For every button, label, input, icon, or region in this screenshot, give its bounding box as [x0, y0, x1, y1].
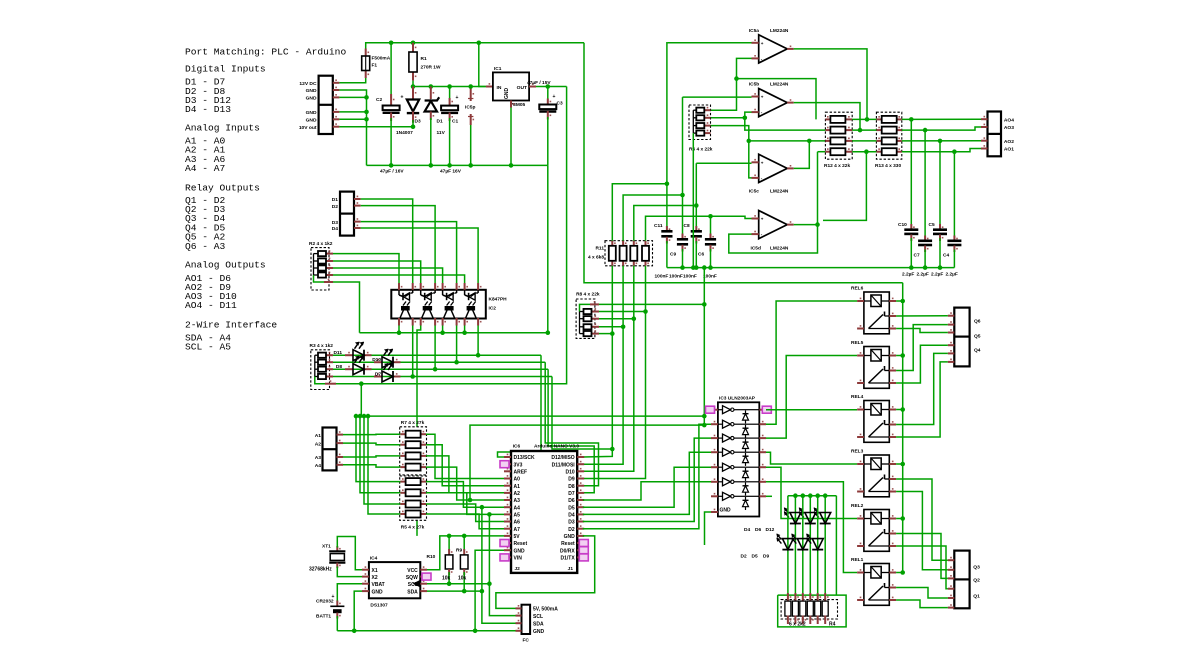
wire IC5b +in — [683, 96, 752, 98]
svg-text:C3: C3 — [557, 101, 563, 107]
wire VBAT to battery — [337, 584, 362, 603]
wire LED common top — [788, 495, 837, 497]
wire D3 to ULN in3 — [583, 438, 711, 521]
wire IC5c output — [794, 141, 810, 169]
svg-text:D4: D4 — [332, 226, 339, 232]
wire opto emitter rail — [360, 332, 548, 334]
resistor network R12 4x22k — [825, 112, 852, 159]
pin highlight Reset left — [500, 540, 509, 547]
wire REL2 contact1 to Q — [896, 534, 948, 579]
wire D8 row to Arduino D7 — [548, 369, 594, 493]
svg-text:R4: R4 — [829, 622, 836, 628]
wire row4 tap down — [823, 152, 866, 221]
wire REL5 contact2 to Q — [896, 345, 948, 383]
wire R8 common vertical — [703, 304, 705, 425]
svg-text:Reset: Reset — [561, 541, 575, 547]
wire 12V top rail — [366, 43, 584, 49]
svg-text:2.2µF: 2.2µF — [931, 272, 943, 278]
wire ULN out3 to REL5 coil — [766, 356, 857, 439]
wire ULN out2 to REL6 coil — [766, 301, 857, 424]
wire D6 to ULN in6 — [583, 482, 711, 500]
wire Arduino GND left down — [475, 550, 504, 631]
capacitor C10 2.2uF — [910, 119, 912, 228]
svg-text:SCL - A5: SCL - A5 — [185, 341, 231, 352]
svg-text:5V, 500mA: 5V, 500mA — [533, 607, 558, 613]
svg-text:78M05: 78M05 — [511, 102, 526, 108]
svg-text:IC2: IC2 — [489, 306, 497, 312]
svg-text:10V out: 10V out — [299, 125, 317, 131]
LED D12 — [824, 496, 826, 600]
svg-text:Q3: Q3 — [973, 565, 980, 571]
wire 5V down to R3 common — [336, 87, 567, 384]
wire X2 to crystal — [337, 567, 362, 577]
wire ULN out5 to REL2 coil — [766, 467, 857, 518]
LED D5 — [802, 496, 804, 600]
svg-text:10k: 10k — [458, 576, 467, 582]
wire IC5d output — [794, 224, 818, 226]
svg-text:D4: D4 — [568, 513, 575, 519]
ULN internal output lines — [746, 409, 760, 411]
svg-text:2-Wire Interface: 2-Wire Interface — [185, 319, 277, 330]
svg-text:2.2µF: 2.2µF — [946, 272, 958, 278]
svg-text:GND: GND — [564, 534, 576, 540]
wire R2 r4 to opto ch4 cathode — [333, 275, 465, 283]
regulator IC1 78M05 — [479, 43, 486, 87]
wire D3 to opto ch3 — [361, 222, 457, 283]
wire DAC line D10 — [583, 266, 634, 472]
wire SCL column to FC — [489, 514, 521, 615]
svg-text:Q6: Q6 — [974, 319, 981, 325]
wire row4 R12-R13 — [852, 151, 876, 153]
wire REL1 contact2 to Q — [896, 600, 948, 608]
wire X1 to crystal — [337, 537, 362, 570]
svg-text:AO3: AO3 — [1004, 125, 1014, 131]
svg-text:J1: J1 — [568, 566, 574, 572]
svg-text:D3: D3 — [332, 220, 339, 226]
ULN diodes — [743, 414, 749, 420]
wire IC5a output — [794, 49, 867, 120]
LED D8 — [333, 368, 548, 370]
svg-text:OUT: OUT — [517, 85, 527, 91]
wire GND rail bottom — [337, 630, 521, 632]
svg-text:A7: A7 — [514, 527, 521, 533]
pin highlight Reset right — [579, 540, 588, 547]
svg-text:+: + — [456, 95, 459, 101]
svg-text:1N4007: 1N4007 — [396, 130, 413, 136]
op-amp IC5c LM224N — [759, 154, 788, 182]
svg-text:3V3: 3V3 — [514, 462, 523, 468]
svg-text:11V: 11V — [437, 130, 446, 136]
LED D6 — [809, 496, 811, 600]
svg-text:D5: D5 — [568, 505, 575, 511]
svg-text:SQW: SQW — [406, 575, 418, 581]
wire R5 r3 to Arduino A6 — [426, 504, 504, 522]
svg-text:AREF: AREF — [514, 470, 528, 476]
svg-text:GND: GND — [372, 589, 384, 595]
wire row4 to AO1 — [902, 149, 981, 152]
svg-text:R8 4 x 22k: R8 4 x 22k — [576, 292, 600, 298]
svg-text:Reset: Reset — [514, 541, 528, 547]
pin highlight D1/TX — [579, 554, 588, 561]
svg-text:Q5: Q5 — [974, 334, 981, 340]
wire R5 r1 to Arduino A4 SDA — [426, 482, 504, 508]
wire filter B up to IC5b — [682, 97, 684, 195]
svg-text:R3 4 x 1k2: R3 4 x 1k2 — [310, 343, 334, 349]
wire IC5c +in — [696, 162, 751, 164]
svg-text:C11: C11 — [654, 223, 663, 229]
svg-text:VBAT: VBAT — [372, 582, 385, 588]
wire R11 r3 top to filter C — [634, 206, 697, 241]
LED D11 — [333, 354, 541, 356]
relay REL1 — [864, 564, 889, 606]
wire IC5d +in — [711, 216, 752, 218]
wire ULN out6 to REL1 coil — [766, 482, 857, 573]
svg-text:Analog Outputs: Analog Outputs — [185, 260, 266, 271]
svg-text:LM224N: LM224N — [770, 28, 789, 34]
svg-text:VCC: VCC — [407, 568, 418, 574]
battery BATT1 CR2032 — [336, 601, 338, 607]
svg-text:A2: A2 — [315, 441, 322, 447]
wire row2 to AO3 — [902, 127, 981, 130]
svg-text:D10: D10 — [566, 470, 575, 476]
capacitor C2 47uF/16V — [390, 43, 392, 98]
wire REL6 contact1 to Q — [896, 315, 948, 317]
svg-text:GND: GND — [533, 629, 545, 635]
resistor network R5 4x27k — [400, 476, 427, 520]
wire opto ch4 out to D11 row — [477, 326, 479, 356]
svg-text:A1: A1 — [514, 484, 521, 490]
wire row1 to AO4 — [902, 118, 981, 120]
svg-text:47µF / 15V: 47µF / 15V — [527, 80, 551, 86]
resistor network R4 6x2k2 — [778, 595, 846, 627]
svg-text:Arduino NANO V3.0: Arduino NANO V3.0 — [534, 444, 579, 450]
svg-text:32768kHz: 32768kHz — [309, 567, 332, 573]
svg-text:2.2µF: 2.2µF — [902, 272, 914, 278]
svg-text:Digital Inputs: Digital Inputs — [185, 63, 266, 74]
connector X1 12V DC input — [319, 76, 333, 134]
wire R11 r1 top to filter A — [612, 184, 667, 241]
svg-text:D12/MISO: D12/MISO — [551, 455, 574, 461]
wire R2 r2 to opto ch2 cathode — [333, 261, 421, 283]
wire mid bus to R5 r2 — [360, 416, 400, 493]
svg-text:F500mA: F500mA — [372, 56, 391, 62]
svg-text:A3: A3 — [315, 455, 322, 461]
zener D1 11V — [430, 87, 432, 100]
svg-text:LM224N: LM224N — [770, 189, 789, 195]
svg-text:47µF / 16V: 47µF / 16V — [380, 169, 404, 175]
wire R5 r4 to Arduino A7 — [426, 514, 504, 529]
wire node 11V — [413, 81, 486, 87]
svg-text:D2: D2 — [741, 554, 747, 560]
wire D10 row to Arduino D8 — [545, 362, 598, 486]
wire row3 to AO2 — [902, 140, 981, 142]
wire REL4 contact2 to Q — [896, 362, 948, 437]
wire R8 r1 to DAC line1 — [599, 311, 646, 313]
resistor R9 10k — [463, 536, 465, 552]
connector AO outputs — [988, 112, 1002, 157]
svg-text:IC6: IC6 — [513, 444, 521, 450]
svg-text:D11: D11 — [333, 350, 342, 356]
svg-text:R11: R11 — [595, 246, 604, 252]
wire REL4 contact1 to Q — [896, 353, 948, 424]
capacitor C9 100nF — [682, 195, 684, 237]
wire REL3 contact2 to Q — [896, 492, 948, 570]
wire IC5b output — [794, 103, 860, 131]
RTC IC4 DS1307 — [369, 562, 420, 598]
capacitor C3 47uF/15V — [547, 87, 549, 102]
svg-text:+: + — [761, 217, 764, 222]
svg-text:R10: R10 — [427, 554, 436, 560]
wire REL2 contact2 to Q — [896, 546, 948, 589]
wire 10V out line — [339, 126, 413, 128]
svg-text:IC4: IC4 — [370, 556, 378, 562]
svg-text:GND: GND — [720, 508, 732, 514]
wire ULN out4 to REL3 coil — [766, 452, 857, 464]
svg-text:D2: D2 — [332, 204, 339, 210]
wire SDA column to FC — [482, 507, 522, 623]
diode D3 1N4007 — [412, 87, 414, 100]
wire GND right down — [496, 536, 595, 609]
resistor network R6 4x22k — [689, 105, 711, 140]
svg-text:A4: A4 — [514, 505, 521, 511]
svg-text:REL1: REL1 — [851, 557, 864, 563]
svg-text:A0: A0 — [514, 477, 521, 483]
op-amp IC5b LM224N — [759, 89, 788, 117]
resistor network R7 4x27k — [400, 427, 427, 475]
wire IC5a +in from filter A — [667, 42, 751, 44]
svg-text:IC5d: IC5d — [751, 246, 761, 252]
svg-text:IC5p: IC5p — [465, 105, 475, 111]
svg-text:100nF: 100nF — [655, 274, 669, 280]
svg-text:Relay Outputs: Relay Outputs — [185, 182, 260, 193]
wire DAC line D12 — [583, 266, 613, 457]
svg-text:D5: D5 — [752, 554, 758, 560]
wire opto ch2 out to D8 row — [434, 326, 436, 370]
svg-text:5V: 5V — [514, 534, 521, 540]
svg-text:+: + — [401, 95, 404, 101]
wire REL6 contact2 to Q — [896, 329, 948, 333]
svg-text:LM224N: LM224N — [770, 246, 789, 252]
svg-text:A1: A1 — [315, 433, 322, 439]
wire D2 to ULN in2 — [583, 424, 711, 529]
wire GND pins to rail — [339, 90, 366, 165]
svg-text:+: + — [761, 41, 764, 46]
svg-text:GND: GND — [514, 548, 526, 554]
relay REL6 — [864, 292, 889, 334]
wire REL1 contact1 to Q — [896, 588, 948, 599]
svg-text:SDA: SDA — [407, 589, 418, 595]
svg-text:C5: C5 — [929, 222, 935, 228]
connector Q6 Q5 Q4 — [954, 308, 969, 367]
svg-text:D4 - D13: D4 - D13 — [185, 104, 231, 115]
svg-text:D11/MOSI: D11/MOSI — [552, 462, 576, 468]
wire battery to GND rail — [336, 616, 338, 631]
svg-text:Analog Inputs: Analog Inputs — [185, 123, 260, 134]
wire REL3 contact1 to Q — [896, 479, 948, 560]
wire LED common right leg — [835, 496, 837, 595]
svg-text:+: + — [761, 160, 764, 165]
relay REL3 — [864, 455, 889, 497]
LED D9 — [817, 496, 819, 600]
svg-text:C10: C10 — [898, 222, 907, 228]
svg-text:REL5: REL5 — [851, 340, 864, 346]
svg-text:R13 4 x 330: R13 4 x 330 — [875, 163, 901, 169]
svg-text:R2 4 x 1k2: R2 4 x 1k2 — [309, 241, 333, 247]
LED D10 — [333, 361, 545, 363]
wire R8 common to cap rail — [599, 268, 704, 305]
svg-text:Port Matching: PLC - Arduino: Port Matching: PLC - Arduino — [185, 47, 346, 58]
wire R7 r3 to Arduino A2 — [426, 456, 504, 493]
connector FC I2C — [522, 605, 531, 634]
wire IC5c -in node — [711, 126, 752, 178]
svg-text:A4: A4 — [315, 463, 322, 469]
svg-text:Q6 - A3: Q6 - A3 — [185, 241, 226, 252]
pin highlight SQW — [422, 573, 431, 580]
svg-text:D9: D9 — [568, 477, 575, 483]
svg-text:D13/SCK: D13/SCK — [514, 455, 536, 461]
svg-text:D10: D10 — [372, 357, 381, 363]
wire D1 to opto ch1 — [361, 199, 413, 283]
svg-text:A3: A3 — [514, 498, 521, 504]
svg-text:GND: GND — [504, 88, 510, 100]
svg-text:D12: D12 — [766, 527, 775, 533]
svg-text:BATT1: BATT1 — [316, 614, 331, 620]
svg-text:C7: C7 — [914, 253, 920, 259]
LED D2 — [787, 496, 789, 600]
capacitor C7 2.2uF — [924, 130, 926, 239]
svg-text:X2: X2 — [372, 575, 378, 581]
pin highlight ULN out1 — [762, 406, 771, 413]
capacitor C4 2.2uF — [953, 152, 955, 239]
svg-text:LM224N: LM224N — [770, 82, 789, 88]
svg-text:GND: GND — [306, 118, 317, 124]
svg-text:D7: D7 — [375, 371, 381, 377]
wire IC5b -in node — [745, 112, 826, 130]
wire D5 to ULN in5 — [583, 467, 711, 507]
wire IC5a -in feedback node — [711, 58, 752, 110]
svg-text:2.2µF: 2.2µF — [917, 272, 929, 278]
wire opto ch2 collector to 5V column — [417, 326, 421, 536]
wire REL5 contact1 to Q — [896, 325, 948, 371]
svg-text:D1: D1 — [332, 197, 339, 203]
svg-text:R1: R1 — [421, 56, 427, 62]
wire row2 R12-R13 — [852, 129, 876, 131]
resistor network R13 4x330 — [876, 112, 901, 159]
svg-text:REL2: REL2 — [851, 503, 864, 509]
svg-text:270R 1W: 270R 1W — [421, 65, 441, 71]
svg-text:C9: C9 — [670, 252, 676, 258]
wire opto ch3 out to D10 row — [456, 326, 458, 363]
svg-text:R5 4 x 27k: R5 4 x 27k — [401, 525, 425, 531]
wire filter C up to IC5c — [695, 163, 697, 205]
svg-text:D9: D9 — [763, 554, 769, 560]
wire R6 common to GND rail — [692, 133, 694, 268]
capacitor C11 100nF — [666, 184, 668, 230]
wire mid bus to R5 r3 — [364, 416, 400, 504]
svg-text:GND: GND — [306, 88, 317, 94]
wire 5V from OUT — [536, 86, 567, 88]
wire 12V relay rail — [902, 283, 904, 573]
svg-text:DS1307: DS1307 — [370, 603, 388, 609]
relay REL2 — [864, 510, 889, 552]
svg-text:Q2: Q2 — [973, 578, 980, 584]
wire A3 to R7 r3 — [343, 456, 400, 457]
wire IC5d -in feedback — [729, 152, 818, 253]
svg-text:Q4: Q4 — [974, 348, 981, 354]
svg-text:D7: D7 — [568, 491, 575, 497]
svg-text:XT1: XT1 — [322, 544, 331, 550]
wire R8 r4 to DAC line4 — [599, 333, 612, 335]
wire SDA line — [427, 590, 482, 592]
svg-text:F1: F1 — [372, 63, 378, 69]
svg-text:A4 - A7: A4 - A7 — [185, 163, 225, 174]
optocoupler IC2 K847PH — [391, 290, 486, 319]
svg-text:4 x 6k8: 4 x 6k8 — [588, 255, 604, 261]
svg-text:R9: R9 — [456, 548, 462, 554]
wire opto ch1 out to D7 row — [412, 326, 414, 377]
wire D2 to opto ch2 — [361, 206, 435, 283]
wire 12V to fuse — [339, 78, 365, 83]
svg-text:AO4: AO4 — [1004, 117, 1014, 123]
wire GND down to opto rail — [547, 165, 549, 332]
relay REL4 — [864, 401, 889, 443]
wire R11 r2 top to filter B — [623, 195, 682, 241]
svg-text:R12 4 x 22k: R12 4 x 22k — [824, 163, 850, 169]
svg-text:AO4 - D11: AO4 - D11 — [185, 300, 237, 311]
wire DAC line D9 — [583, 266, 646, 479]
svg-text:GND: GND — [306, 110, 317, 116]
svg-text:D3: D3 — [415, 119, 421, 125]
svg-text:D6: D6 — [568, 498, 575, 504]
wire ULN out1 to REL4 coil — [766, 409, 857, 411]
connector Q3 Q2 Q1 — [954, 551, 969, 609]
wire filter A up to IC5a — [666, 43, 668, 184]
wire R2 r1 to opto ch1 cathode — [333, 254, 399, 283]
wire D4 to opto ch4 — [361, 228, 478, 283]
svg-text:D0/RX: D0/RX — [560, 548, 575, 554]
svg-text:REL6: REL6 — [851, 286, 864, 292]
svg-text:AO1: AO1 — [1004, 147, 1014, 153]
svg-text:C8: C8 — [684, 223, 690, 229]
wire R7 r2 to Arduino A1 — [426, 445, 504, 486]
fuse F1 — [365, 71, 367, 79]
wire R2 r3 to opto ch3 cathode — [333, 268, 443, 283]
capacitor C5 2.2uF — [939, 141, 941, 228]
svg-text:10k: 10k — [442, 576, 451, 582]
wire ULN out7 stub — [766, 495, 772, 497]
pin highlight D0/RX — [579, 547, 588, 554]
svg-text:GND: GND — [306, 96, 317, 102]
pin highlight ULN in1 — [706, 406, 715, 413]
op-amp IC5d LM224N — [759, 211, 788, 239]
svg-text:6 x 2k2: 6 x 2k2 — [789, 622, 806, 628]
svg-text:A5: A5 — [514, 513, 521, 519]
svg-text:A2: A2 — [514, 491, 521, 497]
wire SCL line — [427, 583, 489, 585]
wire D7 row joins D12 net — [552, 377, 612, 450]
relay REL5 — [864, 347, 889, 389]
svg-text:+: + — [332, 594, 335, 600]
svg-text:D8: D8 — [568, 484, 575, 490]
wire A1 to R7 r1 — [343, 433, 400, 435]
svg-text:J2: J2 — [515, 566, 521, 572]
wire D11 row to Arduino D13 — [498, 355, 542, 457]
svg-text:C1: C1 — [452, 119, 458, 125]
wire mid bus to R5 r4 — [368, 416, 400, 514]
wire mid bus to R5 r1 — [356, 416, 400, 482]
wire R8 r2 to DAC line2 — [599, 318, 634, 320]
svg-text:FC: FC — [523, 638, 530, 644]
